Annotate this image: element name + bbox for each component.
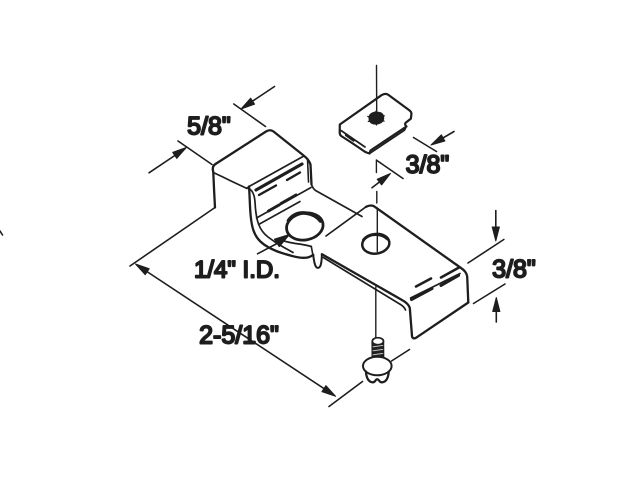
- hole 1/4 top heavy arc: [289, 213, 321, 221]
- leader arrowhead at big hole: [275, 235, 289, 247]
- dim top 3/8 upper extension line: [414, 138, 437, 152]
- dim 5/8 lower arrow shaft: [149, 149, 185, 173]
- centerline dash a below nut: [375, 160, 377, 173]
- screw shank top ellipse: [372, 338, 383, 345]
- nut outline top face and sides: [340, 94, 412, 154]
- dim 2-5/16 left extension line: [130, 208, 215, 267]
- svg-text:5/8": 5/8": [187, 113, 231, 141]
- svg-text:3/8": 3/8": [406, 151, 450, 179]
- bracket right plate top-left edge: [326, 207, 366, 236]
- bracket hump top-face front band edge: [213, 173, 247, 189]
- nut side dark tick: [346, 135, 354, 141]
- bracket tab inner left line: [311, 247, 312, 254]
- screw thread white gaps: [373, 345, 383, 358]
- bracket inner fold edge along flat: [283, 241, 312, 247]
- hatch marks right plate bend face on crease: [412, 276, 459, 300]
- screw washer head ellipse: [363, 357, 392, 376]
- bracket right plate bottom-left edge outer: [322, 254, 412, 336]
- nut hole thread spikes: [368, 111, 384, 125]
- dim right 3/8 lower arrow shaft: [495, 300, 497, 323]
- bracket bend bottom edge: [412, 303, 468, 339]
- dim 2-5/16 right extension line segment upper: [392, 350, 410, 362]
- hole 1/4 inch big hole: [284, 210, 325, 243]
- dim 2-5/16 left arrowhead: [136, 264, 150, 275]
- hatch marks hump step face upper: [256, 164, 302, 190]
- bracket hump back-left edge: [213, 164, 216, 208]
- bracket S-bend inner thickness line: [248, 188, 294, 253]
- dim top 3/8 upper arrowhead: [431, 135, 445, 145]
- dim 2-5/16 right arrowhead: [322, 386, 336, 397]
- bracket right plate bottom-left edge inner: [323, 258, 405, 311]
- svg-text:3/8": 3/8": [492, 256, 536, 284]
- dim 5/8 lower extension line: [178, 141, 212, 165]
- dim top 3/8 lower arrowhead: [377, 174, 390, 185]
- nut side band inner line: [341, 131, 365, 148]
- centerline through plate hole: [376, 208, 378, 252]
- nut hole dark: [369, 112, 383, 123]
- centerline dash b below nut: [376, 192, 378, 204]
- hole small right plate hole: [361, 232, 391, 255]
- leader line 1/4 ID: [258, 243, 279, 254]
- svg-text:1/4" I.D.: 1/4" I.D.: [194, 257, 280, 284]
- hatch marks right plate bend face upper row: [416, 268, 459, 287]
- bracket hump right edge inner line: [308, 159, 309, 183]
- dim 5/8 upper arrow shaft: [243, 87, 275, 108]
- bracket bend crease: [411, 274, 461, 299]
- hatch marks hump step face upper broken: [259, 173, 300, 196]
- dim right 3/8 lower arrowhead: [493, 298, 500, 312]
- dim 2-5/16 line: [137, 265, 334, 395]
- screw shank dark threaded body: [372, 342, 383, 363]
- bracket right plate apex and top-right edge: [366, 206, 468, 303]
- nut front-right band lower edge: [370, 127, 406, 154]
- dim top 3/8 lower extension line: [377, 161, 403, 179]
- centerline top segment above nut: [376, 66, 378, 114]
- centerline above screw: [375, 287, 377, 337]
- bracket step lower fold line b: [260, 202, 301, 225]
- dim top 3/8 lower arrow shaft: [372, 175, 389, 188]
- bracket mid flat back edge: [312, 185, 363, 217]
- stray tick left edge: [0, 231, 3, 235]
- dim right 3/8 lower extension line: [474, 284, 506, 304]
- bracket step lower fold line a: [257, 188, 312, 219]
- dim right 3/8 upper extension line: [468, 240, 504, 264]
- dim 5/8 upper extension line: [234, 104, 266, 127]
- dim 5/8 upper arrowhead: [241, 98, 255, 109]
- hatch marks hump step face lower: [269, 195, 297, 211]
- bracket hump crease top face / step face: [249, 157, 303, 187]
- screw head scalloped bottom: [366, 372, 389, 383]
- dim right 3/8 upper arrowhead: [492, 227, 499, 241]
- bracket tab dip outline: [313, 254, 322, 268]
- dim 5/8 lower arrowhead: [173, 148, 187, 159]
- dim 2-5/16 right extension line segment lower: [329, 382, 363, 407]
- dim right 3/8 upper arrow shaft: [495, 211, 497, 240]
- bracket hump top face outline: [216, 130, 312, 184]
- hole small top heavy arc: [364, 234, 388, 240]
- svg-text:2-5/16": 2-5/16": [199, 322, 279, 350]
- dim top 3/8 upper arrow shaft: [433, 132, 454, 144]
- bracket S-bend outer left outline: [249, 187, 313, 258]
